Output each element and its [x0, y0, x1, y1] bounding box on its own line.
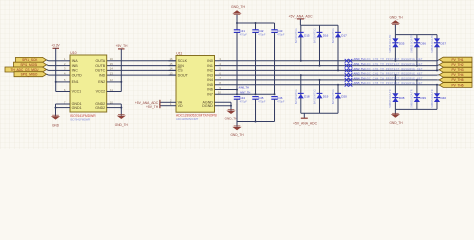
- svg-text:OUTB: OUTB: [95, 64, 106, 68]
- svg-text:DIN: DIN: [178, 64, 185, 68]
- TVS D36: [416, 35, 418, 66]
- power +5V_ANA_ADC (bottom diode rail): [293, 113, 318, 125]
- svg-text:D35: D35: [399, 41, 405, 45]
- power +3.3V: [51, 44, 60, 49]
- IC U11 ADC128S052: [160, 51, 231, 112]
- power +5V_TH (VD pin): [146, 104, 160, 109]
- port flag PV_TH6: [439, 83, 472, 88]
- junction dots cap columns: [236, 89, 238, 91]
- svg-text:GND_TH: GND_TH: [225, 117, 238, 121]
- svg-text:EN1: EN1: [72, 80, 79, 84]
- wire: row jog into flag: [437, 74, 439, 76]
- svg-text:SPI1_SCK: SPI1_SCK: [22, 58, 38, 62]
- svg-text:IN7: IN7: [207, 93, 213, 97]
- net label AIN5_TH: [345, 81, 423, 87]
- port flag PV_TH5: [439, 78, 472, 83]
- svg-text:IN1: IN1: [207, 64, 213, 68]
- svg-text:+5V_ANA_ADC: +5V_ANA_ADC: [293, 121, 318, 125]
- power +5V_ANA_ADC (VA pin): [135, 100, 160, 105]
- svg-text:D18: D18: [304, 95, 310, 99]
- svg-text:D16: D16: [323, 34, 329, 38]
- svg-text:+5V_ANA_ADC: +5V_ANA_ADC: [288, 15, 313, 19]
- svg-text:DGND: DGND: [202, 104, 213, 108]
- svg-text:IN4: IN4: [207, 78, 213, 82]
- wire: bottom diode rail: [301, 112, 338, 114]
- svg-text:ISO7641FMDWR: ISO7641FMDWR: [70, 114, 96, 118]
- svg-text:C45: C45: [258, 96, 264, 100]
- svg-text:ADC_CH3_TH_PROTECT_RESERVE_NET: ADC_CH3_TH_PROTECT_RESERVE_NET: [365, 73, 423, 76]
- TVS D38: [394, 75, 396, 109]
- net label AIN4_TH: [345, 76, 423, 82]
- port flag PV_TH3: [439, 67, 472, 72]
- svg-text:INA: INA: [72, 59, 79, 63]
- TVS D37: [436, 35, 438, 71]
- power +5V_ANA_ADC (top diode rail): [288, 15, 313, 19]
- svg-text:PV_TH2: PV_TH2: [451, 63, 463, 67]
- svg-text:C46: C46: [277, 96, 283, 100]
- wire: row jog into flag: [437, 69, 439, 72]
- svg-text:IN6: IN6: [207, 88, 213, 92]
- svg-text:D36: D36: [420, 41, 426, 45]
- svg-text:AIN4_TH: AIN4_TH: [354, 76, 365, 80]
- wire: right bottom rail: [395, 108, 437, 110]
- svg-text:SMBJ5.0CA-TR: SMBJ5.0CA-TR: [388, 34, 392, 53]
- svg-text:AIN5_TH: AIN5_TH: [354, 81, 365, 85]
- ground GND_TH (right top): [389, 16, 403, 25]
- wire: row jog into flag: [437, 60, 439, 61]
- svg-text:+3.3V: +3.3V: [51, 44, 60, 48]
- capacitor C45: [252, 96, 266, 104]
- svg-text:BAS16HT1G: BAS16HT1G: [331, 28, 335, 43]
- net label AIN3_TH: [345, 72, 423, 78]
- svg-text:BAS16HT1G: BAS16HT1G: [313, 89, 317, 104]
- diode D16: [319, 25, 321, 65]
- svg-text:OUTC: OUTC: [95, 69, 106, 73]
- svg-text:IN0: IN0: [207, 59, 213, 63]
- svg-text:SPI1_MOSI: SPI1_MOSI: [20, 63, 37, 67]
- net label AIN0_TH: [345, 57, 423, 63]
- ground GND_TH (top cap rail): [231, 5, 245, 14]
- wire: ADC input bus rows 0-5 to right: [215, 60, 438, 62]
- svg-text:AIN0_TH: AIN0_TH: [354, 57, 365, 61]
- svg-text:BAS16HT1G: BAS16HT1G: [294, 28, 298, 43]
- svg-text:C43: C43: [277, 29, 283, 33]
- wire: +5V_TH to EN2/VCC2: [120, 49, 122, 92]
- svg-text:D39: D39: [420, 96, 426, 100]
- svg-text:SMBJ5.0CA-TR: SMBJ5.0CA-TR: [410, 89, 414, 108]
- svg-text:GND_TH: GND_TH: [389, 16, 403, 20]
- svg-text:GND2: GND2: [95, 106, 105, 110]
- svg-text:GND_TH: GND_TH: [231, 5, 245, 9]
- svg-text:GND: GND: [52, 124, 60, 128]
- wire: flag to isolator pin: [47, 69, 49, 72]
- svg-text:D20: D20: [341, 95, 347, 99]
- svg-text:D19: D19: [323, 95, 329, 99]
- svg-text:PV_TH3: PV_TH3: [451, 68, 463, 72]
- svg-text:IND: IND: [99, 73, 106, 77]
- wire: top diode rail: [300, 24, 338, 26]
- wire: stem to cap rail: [236, 15, 238, 23]
- svg-text:PV_TH1: PV_TH1: [451, 58, 463, 62]
- svg-text:+5V_TH: +5V_TH: [116, 44, 128, 48]
- svg-text:PV_TH4: PV_TH4: [451, 73, 463, 77]
- svg-text:AIN6_TH: AIN6_TH: [239, 87, 249, 90]
- svg-text:ISO7641FMDWR: ISO7641FMDWR: [70, 118, 90, 122]
- net label AIN2_TH: [345, 67, 423, 73]
- wire: flag to isolator pin: [47, 64, 49, 67]
- wire: +3.3V to EN1/VCC1: [55, 48, 57, 91]
- ground GND_TH (right bottom): [389, 113, 403, 125]
- wire: row6 short net: [215, 89, 238, 91]
- diode D20: [337, 85, 339, 114]
- diode D17: [337, 25, 339, 70]
- svg-text:ADC_CH5_TH_PROTECT_RESERVE_NET: ADC_CH5_TH_PROTECT_RESERVE_NET: [365, 82, 423, 85]
- svg-text:OUTA: OUTA: [95, 59, 105, 63]
- power +5V_TH: [116, 44, 128, 49]
- diode D18: [300, 75, 302, 113]
- svg-text:AIN1_TH: AIN1_TH: [354, 62, 365, 66]
- diode D19: [319, 80, 321, 113]
- svg-text:470pF: 470pF: [277, 33, 285, 37]
- svg-text:EN2: EN2: [98, 80, 105, 84]
- svg-text:BAS16HT1G: BAS16HT1G: [331, 89, 335, 104]
- TVS D35: [394, 35, 396, 61]
- svg-text:VD: VD: [178, 104, 183, 108]
- wire: row jog into flag: [437, 79, 439, 81]
- svg-text:SPI1_MISO: SPI1_MISO: [21, 73, 38, 77]
- svg-text:CS: CS: [178, 69, 184, 73]
- diode D15: [300, 25, 302, 61]
- wire: column C41: [236, 23, 238, 30]
- svg-text:SCLK: SCLK: [178, 59, 188, 63]
- wire: column C43: [274, 23, 276, 30]
- svg-text:GND_TH: GND_TH: [389, 121, 403, 125]
- wire: AGND/DGND join: [230, 102, 232, 110]
- wire: GND1 stubs join: [55, 104, 57, 116]
- wire: stem: [299, 19, 301, 25]
- port flag SPI1_SCK: [16, 57, 47, 62]
- svg-text:ADC128S052CIMTX/NOPB: ADC128S052CIMTX/NOPB: [176, 114, 217, 118]
- svg-text:D15: D15: [304, 34, 310, 38]
- svg-text:C44: C44: [239, 96, 245, 100]
- svg-text:470pF: 470pF: [240, 99, 248, 103]
- svg-text:470pF: 470pF: [277, 99, 285, 103]
- svg-text:IN2: IN2: [207, 69, 213, 73]
- svg-text:470pF: 470pF: [240, 33, 248, 37]
- svg-text:AIN2_TH: AIN2_TH: [354, 67, 365, 71]
- wire: row jog into flag: [437, 64, 439, 67]
- svg-text:BAS16HT1G: BAS16HT1G: [313, 28, 317, 43]
- svg-text:GND1: GND1: [72, 106, 82, 110]
- ground GND_TH (U10 right): [115, 115, 129, 128]
- svg-text:C42: C42: [258, 29, 264, 33]
- wire: top cap rail: [237, 22, 275, 24]
- svg-text:OUTD: OUTD: [72, 73, 83, 77]
- wire: row7 net to cap columns: [215, 93, 275, 95]
- wire: bottom cap rail: [237, 121, 275, 123]
- port flag SPI1_MOSI: [14, 62, 47, 67]
- TVS D40: [436, 85, 438, 110]
- wire: flag to isolator pin: [47, 59, 49, 62]
- svg-text:ADC_CH2_TH_PROTECT_RESERVE_NET: ADC_CH2_TH_PROTECT_RESERVE_NET: [365, 68, 423, 71]
- svg-text:D37: D37: [441, 41, 447, 45]
- port flag PV_TH2: [439, 62, 472, 67]
- wire: stem to ground: [236, 122, 238, 127]
- ground GND_TH (bottom cap rail): [230, 126, 244, 137]
- svg-text:+5V_TH: +5V_TH: [146, 105, 159, 109]
- svg-text:D38: D38: [399, 96, 405, 100]
- svg-text:ADC_CH4_TH_PROTECT_RESERVE_NET: ADC_CH4_TH_PROTECT_RESERVE_NET: [365, 77, 423, 80]
- svg-text:ADC_CH0_TH_PROTECT_RESERVE_NET: ADC_CH0_TH_PROTECT_RESERVE_NET: [365, 58, 423, 61]
- wire: flag to isolator pin: [47, 73, 49, 76]
- svg-text:U10: U10: [70, 51, 76, 55]
- svg-text:ADC_CH1_TH_PROTECT_RESERVE_NET: ADC_CH1_TH_PROTECT_RESERVE_NET: [365, 63, 423, 66]
- svg-text:VCC2: VCC2: [96, 90, 106, 94]
- wire: row jog into flag: [437, 84, 439, 86]
- svg-text:INC: INC: [72, 69, 79, 73]
- svg-text:470pF: 470pF: [258, 33, 266, 37]
- svg-text:ADC128S052CIMT: ADC128S052CIMT: [176, 117, 199, 121]
- ground GND: [51, 115, 60, 127]
- IC U10 ISO7641FMDWR digital isolator: [56, 51, 122, 112]
- capacitor C44: [234, 96, 248, 104]
- capacitor C46: [271, 96, 285, 104]
- svg-text:VCC1: VCC1: [72, 90, 82, 94]
- svg-text:GND_TH: GND_TH: [230, 133, 244, 137]
- port flag PV_TH4: [439, 72, 472, 77]
- wire: U10 outputs to U11 inputs rows 0-3: [107, 60, 176, 62]
- svg-text:SMBJ5.0CA-TR: SMBJ5.0CA-TR: [388, 89, 392, 108]
- svg-text:SMBJ5.0CA-TR: SMBJ5.0CA-TR: [430, 34, 434, 53]
- svg-text:PV_TH5: PV_TH5: [451, 78, 463, 82]
- svg-text:C41: C41: [239, 29, 245, 33]
- svg-text:INB: INB: [72, 64, 79, 68]
- svg-text:U11: U11: [176, 51, 182, 55]
- TVS D39: [416, 80, 418, 110]
- port flag SPI1_MISO: [14, 72, 47, 77]
- svg-text:SMBJ5.0CA-TR: SMBJ5.0CA-TR: [410, 34, 414, 53]
- svg-text:BAS16HT1G: BAS16HT1G: [294, 89, 298, 104]
- svg-text:D40: D40: [441, 96, 447, 100]
- svg-text:IN3: IN3: [207, 73, 213, 77]
- wire: GND2 stubs join: [120, 104, 122, 116]
- wire: right top rail: [395, 34, 437, 36]
- port flag PV_TH1: [439, 57, 472, 62]
- port flag TH_ADC_CS_MCU: [5, 67, 47, 72]
- svg-text:DOUT: DOUT: [178, 73, 189, 77]
- svg-text:GND_TH: GND_TH: [115, 123, 129, 127]
- svg-text:AIN7_TH: AIN7_TH: [240, 91, 250, 94]
- svg-text:PV_TH6: PV_TH6: [451, 83, 463, 87]
- svg-text:SMBJ5.0CA-TR: SMBJ5.0CA-TR: [430, 89, 434, 108]
- svg-text:IN5: IN5: [207, 83, 213, 87]
- svg-text:D17: D17: [341, 34, 347, 38]
- ground GND_TH (U11): [225, 110, 238, 121]
- svg-text:470pF: 470pF: [258, 99, 266, 103]
- svg-text:TH_ADC_CS_MCU: TH_ADC_CS_MCU: [11, 68, 40, 72]
- wire: column C42: [255, 23, 257, 30]
- net label AIN1_TH: [345, 62, 423, 68]
- background grid: [0, 0, 474, 149]
- svg-text:AIN3_TH: AIN3_TH: [354, 72, 365, 76]
